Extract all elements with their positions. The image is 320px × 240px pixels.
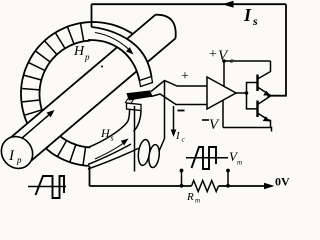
svg-text:0V: 0V — [275, 175, 290, 189]
svg-text:R: R — [186, 191, 194, 203]
svg-text:I: I — [8, 148, 15, 164]
svg-text:I: I — [243, 5, 252, 25]
svg-text:H: H — [73, 44, 85, 59]
svg-text:s: s — [252, 14, 258, 28]
svg-text:p: p — [84, 52, 90, 62]
svg-text:m: m — [195, 197, 200, 204]
svg-text:H: H — [100, 126, 111, 140]
svg-text:p: p — [16, 155, 22, 165]
svg-text:m: m — [237, 159, 242, 167]
svg-text:+: + — [181, 69, 189, 84]
svg-text:s: s — [111, 134, 114, 143]
svg-text:+: + — [209, 47, 217, 62]
